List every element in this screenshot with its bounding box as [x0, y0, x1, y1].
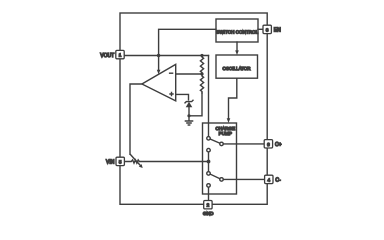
zener diode D1 cathode bar — [185, 100, 193, 103]
op-amp U1 (comparator, left-pointing triangle) — [142, 64, 176, 101]
wire VOUT vertical down to charge-pump switch — [208, 56, 210, 137]
svg-text:SWITCH CONTROL: SWITCH CONTROL — [216, 29, 258, 34]
resistor R1 (upper divider) — [200, 56, 203, 75]
node junction on VOUT at divider top — [200, 54, 203, 57]
pin VOUT terminal box — [116, 50, 124, 58]
svg-text:5: 5 — [119, 159, 122, 164]
svg-text:OSCILLATOR: OSCILLATOR — [222, 66, 251, 71]
ground symbol — [185, 116, 192, 125]
wire C+ to pin — [223, 143, 264, 145]
arrow through pass element — [130, 154, 140, 165]
svg-text:4: 4 — [268, 177, 271, 182]
wire switch chain middle — [208, 152, 210, 172]
switch S1 common contact C+ — [220, 142, 224, 146]
wire comparator gating line from switch control — [159, 29, 216, 70]
svg-text:EN: EN — [274, 28, 281, 34]
svg-text:2: 2 — [207, 203, 210, 208]
svg-text:6: 6 — [267, 142, 270, 147]
op-amp minus symbol — [170, 72, 173, 74]
op-amp plus symbol — [170, 93, 173, 96]
wire oscillator to charge pump — [229, 78, 237, 118]
pin EN terminal box — [263, 25, 271, 33]
wire zener anode to reference node — [188, 107, 190, 116]
switch S1 contact upper — [207, 137, 211, 141]
svg-text:GND: GND — [203, 211, 214, 217]
pin VIN terminal box — [116, 157, 124, 165]
switch S2 contact upper — [207, 172, 211, 176]
charge pump block — [203, 123, 237, 194]
wire C- to pin — [223, 178, 264, 180]
pin GND terminal box — [204, 201, 212, 209]
node junction on VOUT at feedback crossing — [157, 54, 160, 57]
node VIN junction on switch chain — [207, 160, 211, 164]
switch S2 common contact C- — [220, 178, 224, 182]
pin C- terminal box — [265, 175, 273, 183]
wire divider bottom to reference node — [189, 93, 202, 116]
svg-text:C-: C- — [275, 178, 281, 184]
pin C+ terminal box — [264, 140, 272, 148]
wire switch control to oscillator — [236, 42, 238, 51]
svg-text:3: 3 — [266, 27, 269, 32]
svg-text:VOUT: VOUT — [100, 53, 114, 59]
switch S2 arm — [210, 174, 220, 179]
wire inverting input to divider tap — [176, 73, 202, 75]
svg-text:C+: C+ — [275, 142, 282, 148]
node reference junction — [187, 114, 190, 117]
switch control block — [216, 19, 258, 42]
wire switch chain to GND pin — [208, 187, 210, 200]
node divider tap junction — [200, 72, 203, 75]
arrowhead into op-amp top edge — [157, 70, 161, 75]
wire op-amp output to pass element — [130, 84, 142, 154]
zener diode D1 body — [186, 102, 193, 108]
svg-text:PUMP: PUMP — [219, 131, 232, 136]
wire non-inverting input to reference — [176, 94, 189, 100]
IC boundary box — [120, 13, 267, 204]
svg-text:1: 1 — [119, 53, 122, 58]
switch S1 contact lower — [207, 148, 211, 152]
resistor R3 variable pass element on VIN — [124, 160, 208, 163]
switch S1 arm — [210, 139, 220, 143]
resistor R2 (lower divider) — [200, 74, 203, 93]
wire switch control to EN pin — [258, 28, 263, 30]
wire VOUT horizontal (pin 1 to top of switch chain) — [124, 55, 208, 57]
switch S2 contact lower — [207, 184, 211, 188]
svg-text:VIN: VIN — [106, 160, 115, 166]
oscillator block — [216, 55, 258, 78]
